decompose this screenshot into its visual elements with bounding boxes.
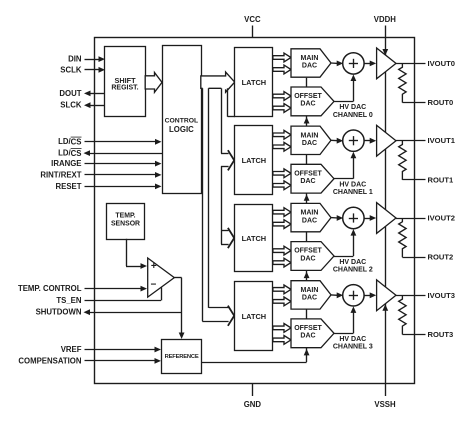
port SCLK label	[60, 65, 82, 74]
port IVOUT0 label	[428, 59, 455, 68]
svg-text:REGIST.: REGIST.	[111, 85, 138, 92]
VDDH arrow into amplifier 0	[382, 49, 388, 56]
port IVOUT1 label	[428, 136, 456, 145]
svg-text:VCC: VCC	[244, 15, 261, 24]
port LD/CS-bar output label	[58, 149, 81, 158]
svg-text:OFFSET: OFFSET	[294, 93, 322, 100]
output amplifier channel 1	[377, 125, 396, 156]
wire main DAC 2 to summer	[331, 215, 343, 221]
svg-text:MAIN: MAIN	[301, 287, 319, 294]
bus latch 1 to offset DAC bit 0	[273, 169, 291, 178]
resistor ROUT channel 0	[399, 63, 406, 102]
reference block	[162, 340, 202, 374]
wire temp sensor to comparator	[126, 239, 147, 269]
power pin VSSH label	[374, 400, 396, 409]
port ROUT2 label	[428, 253, 454, 262]
latch 2 block	[235, 205, 273, 272]
wire offset DAC 0 to summer	[334, 75, 356, 102]
VSSH arrow into amplifier 3	[382, 304, 388, 311]
bus rail A2	[208, 88, 210, 308]
control logic block	[163, 46, 202, 194]
svg-text:TS_EN: TS_EN	[56, 296, 81, 305]
bus rail B1 lower	[221, 166, 223, 244]
bus elbow latch 2	[221, 228, 234, 248]
svg-text:ROUT0: ROUT0	[428, 98, 454, 107]
port ROUT1 label	[428, 175, 455, 184]
latch 0 block	[235, 48, 273, 117]
output amplifier channel 2	[377, 203, 396, 234]
wire offset DAC 3 to summer	[334, 306, 356, 333]
svg-text:CHANNEL 1: CHANNEL 1	[333, 189, 373, 196]
svg-text:LATCH: LATCH	[242, 78, 267, 87]
wire IVOUT1	[396, 140, 426, 142]
wire GND tick	[252, 384, 254, 396]
wire COMPENSATION	[85, 358, 162, 364]
port IRANGE label	[51, 159, 81, 168]
port ROUT0 label	[428, 98, 454, 107]
wire DOUT	[84, 91, 105, 97]
wire summer 0 to amplifier	[364, 61, 376, 67]
svg-text:HV DAC: HV DAC	[339, 336, 366, 343]
svg-text:MAIN: MAIN	[301, 210, 319, 217]
bus latch 3 to main DAC bit 1	[273, 297, 291, 306]
svg-text:ROUT2: ROUT2	[428, 253, 454, 262]
label HV DAC channel 1	[333, 182, 373, 197]
svg-text:LATCH: LATCH	[242, 234, 267, 243]
svg-text:IVOUT3: IVOUT3	[428, 291, 455, 300]
wire IVOUT0	[396, 63, 426, 65]
svg-text:DOUT: DOUT	[59, 89, 81, 98]
wire ROUT0	[402, 102, 425, 104]
port ROUT3 label	[428, 330, 454, 339]
main DAC channel 0	[291, 49, 331, 77]
port TS_EN label	[56, 296, 81, 305]
offset DAC channel 1	[291, 164, 334, 193]
svg-text:DAC: DAC	[302, 140, 317, 147]
reference arrow into offset DAC 2	[304, 272, 310, 279]
port DIN label	[68, 55, 82, 64]
wire summer 2 to amplifier	[364, 215, 376, 221]
wire DIN	[85, 56, 106, 62]
svg-text:MAIN: MAIN	[301, 132, 319, 139]
wire main DAC 1 to summer	[331, 138, 343, 144]
wire IRANGE	[85, 161, 162, 167]
wire RESET	[85, 184, 162, 190]
bus latch 1 to main DAC bit 1	[273, 142, 291, 151]
svg-text:HV DAC: HV DAC	[339, 182, 366, 189]
label HV DAC channel 3	[333, 336, 373, 351]
wire RINT/REXT	[85, 172, 162, 178]
port IVOUT2 label	[428, 214, 455, 223]
svg-text:CHANNEL 0: CHANNEL 0	[333, 112, 373, 119]
svg-text:CONTROL: CONTROL	[165, 118, 199, 125]
svg-text:ROUT1: ROUT1	[428, 175, 455, 184]
reference arrow into offset DAC 1	[304, 194, 310, 201]
port RESET label	[56, 182, 82, 191]
svg-text:DAC: DAC	[300, 101, 315, 108]
bus latch 0 to offset DAC bit 0	[273, 92, 291, 101]
wire LD/CS-bar input	[85, 139, 162, 145]
svg-text:CHANNEL 2: CHANNEL 2	[333, 266, 373, 273]
wire VCC tick	[252, 26, 254, 39]
wire IVOUT3	[396, 295, 426, 297]
bus rail B2 stub	[228, 88, 235, 117]
svg-text:DAC: DAC	[302, 295, 317, 302]
label HV DAC channel 0	[333, 104, 373, 119]
port DOUT label	[59, 89, 81, 98]
port COMPENSATION label	[18, 356, 81, 365]
wire main DAC 0 to summer	[331, 61, 343, 67]
main DAC channel 3	[291, 281, 331, 309]
offset DAC channel 3	[291, 319, 334, 348]
svg-text:ROUT3: ROUT3	[428, 330, 454, 339]
wire main DAC 3 to summer	[331, 292, 343, 298]
wire ROUT1	[402, 179, 425, 181]
wire IVOUT2	[396, 218, 426, 220]
svg-text:TEMP.: TEMP.	[115, 213, 135, 220]
wire reference output	[202, 362, 307, 364]
latch 1 block	[235, 126, 273, 195]
wire SHUTDOWN	[84, 309, 182, 315]
svg-text:IVOUT2: IVOUT2	[428, 214, 455, 223]
label HV DAC channel 2	[333, 259, 373, 274]
wire comparator output to reference	[174, 278, 184, 340]
wire summer 3 to amplifier	[364, 292, 376, 298]
port TEMP. CONTROL label	[18, 284, 82, 293]
wire reference rail	[306, 78, 308, 362]
svg-text:LOGIC: LOGIC	[169, 125, 194, 134]
main DAC channel 2	[291, 203, 331, 231]
IC boundary box	[95, 38, 415, 384]
svg-text:+: +	[151, 261, 157, 272]
svg-text:DAC: DAC	[300, 333, 315, 340]
svg-text:OFFSET: OFFSET	[294, 248, 322, 255]
svg-text:SENSOR: SENSOR	[111, 220, 140, 227]
bus latch 0 to offset DAC bit 1	[273, 104, 291, 113]
svg-text:HV DAC: HV DAC	[339, 259, 366, 266]
summing junction channel 2	[343, 207, 364, 228]
wire SCLK	[85, 67, 106, 73]
svg-text:IVOUT1: IVOUT1	[428, 136, 456, 145]
offset DAC channel 0	[291, 87, 334, 116]
bus latch 2 to main DAC bit 0	[273, 208, 291, 217]
bus latch 2 to offset DAC bit 1	[273, 258, 291, 267]
svg-text:CHANNEL 3: CHANNEL 3	[333, 344, 373, 351]
wire VREF	[85, 347, 162, 353]
output amplifier channel 3	[377, 280, 396, 311]
svg-text:DAC: DAC	[302, 63, 317, 70]
svg-text:HV DAC: HV DAC	[339, 104, 366, 111]
svg-text:RINT/REXT: RINT/REXT	[40, 170, 81, 179]
wire ROUT3	[402, 334, 425, 336]
svg-text:COMPENSATION: COMPENSATION	[18, 356, 81, 365]
port RINT/REXT label	[40, 170, 81, 179]
svg-text:MAIN: MAIN	[301, 55, 319, 62]
resistor ROUT channel 1	[399, 141, 406, 180]
power pin GND label	[244, 400, 262, 409]
port VREF label	[61, 345, 82, 354]
bus latch 0 to main DAC bit 1	[273, 65, 291, 74]
svg-text:VREF: VREF	[61, 345, 82, 354]
port IVOUT3 label	[428, 291, 455, 300]
reference arrow into offset DAC 3	[304, 349, 310, 356]
svg-text:−: −	[150, 280, 156, 291]
wire TEMP. CONTROL	[85, 286, 148, 292]
bus tap openings	[203, 87, 228, 89]
bus latch 0 to main DAC bit 0	[273, 53, 291, 62]
main DAC channel 1	[291, 126, 331, 154]
wire ROUT2	[402, 257, 425, 259]
bus control logic to latch 0	[201, 72, 235, 92]
wire TS_EN	[85, 288, 162, 301]
offset DAC channel 2	[291, 242, 334, 271]
svg-text:GND: GND	[244, 400, 262, 409]
summing junction channel 1	[343, 130, 364, 151]
bus latch 2 to main DAC bit 1	[273, 220, 291, 229]
svg-text:IRANGE: IRANGE	[51, 159, 81, 168]
port LD/CS-bar input label	[58, 137, 81, 146]
output amplifier channel 0	[377, 48, 396, 79]
bus shift register to control logic	[145, 73, 162, 93]
svg-text:SLCK: SLCK	[60, 101, 82, 110]
wire offset DAC 2 to summer	[334, 229, 356, 256]
power pin VDDH label	[374, 15, 396, 24]
svg-text:LATCH: LATCH	[242, 156, 267, 165]
bus latch 3 to offset DAC bit 0	[273, 324, 291, 333]
svg-text:LD/CS: LD/CS	[58, 137, 81, 146]
svg-text:DAC: DAC	[300, 178, 315, 185]
bus elbow latch 1	[221, 150, 234, 170]
svg-text:VDDH: VDDH	[374, 15, 396, 24]
power pin VCC label	[244, 15, 261, 24]
svg-text:REFERENCE: REFERENCE	[165, 354, 199, 360]
bus latch 3 to main DAC bit 0	[273, 285, 291, 294]
svg-text:DAC: DAC	[300, 255, 315, 262]
summing junction channel 3	[343, 285, 364, 306]
svg-text:OFFSET: OFFSET	[294, 170, 322, 177]
comparator U1	[148, 258, 175, 297]
bus rail A1	[202, 88, 204, 321]
wire summer 1 to amplifier	[364, 138, 376, 144]
bus latch 3 to offset DAC bit 1	[273, 336, 291, 345]
wire VDDH-VSSH rail	[385, 26, 387, 397]
svg-text:DIN: DIN	[68, 55, 82, 64]
svg-text:LATCH: LATCH	[242, 312, 267, 321]
svg-text:TEMP. CONTROL: TEMP. CONTROL	[18, 284, 82, 293]
summing junction channel 0	[343, 53, 364, 74]
resistor ROUT channel 2	[399, 218, 406, 257]
svg-text:DAC: DAC	[302, 217, 317, 224]
bus latch 1 to main DAC bit 0	[273, 130, 291, 139]
wire offset DAC 1 to summer	[334, 152, 356, 179]
shift register block	[105, 47, 146, 117]
wire LD/CS-bar output	[84, 150, 163, 156]
svg-text:OFFSET: OFFSET	[294, 325, 322, 332]
reference arrow into offset DAC 0	[304, 117, 310, 124]
port SLCK label	[60, 101, 82, 110]
bus elbow latch 3	[202, 306, 234, 326]
svg-text:IVOUT0: IVOUT0	[428, 59, 455, 68]
svg-text:LD/CS: LD/CS	[58, 149, 81, 158]
latch 3 block	[235, 282, 273, 351]
svg-text:SHUTDOWN: SHUTDOWN	[36, 308, 82, 317]
svg-text:RESET: RESET	[56, 182, 82, 191]
bus latch 2 to offset DAC bit 0	[273, 246, 291, 255]
port SHUTDOWN label	[36, 308, 82, 317]
bus rail B1 upper	[221, 88, 223, 153]
wire SLCK	[84, 102, 105, 108]
svg-text:SCLK: SCLK	[60, 65, 82, 74]
temp sensor block	[107, 204, 145, 240]
bus latch 1 to offset DAC bit 1	[273, 181, 291, 190]
resistor ROUT channel 3	[399, 295, 406, 334]
svg-text:VSSH: VSSH	[374, 400, 396, 409]
